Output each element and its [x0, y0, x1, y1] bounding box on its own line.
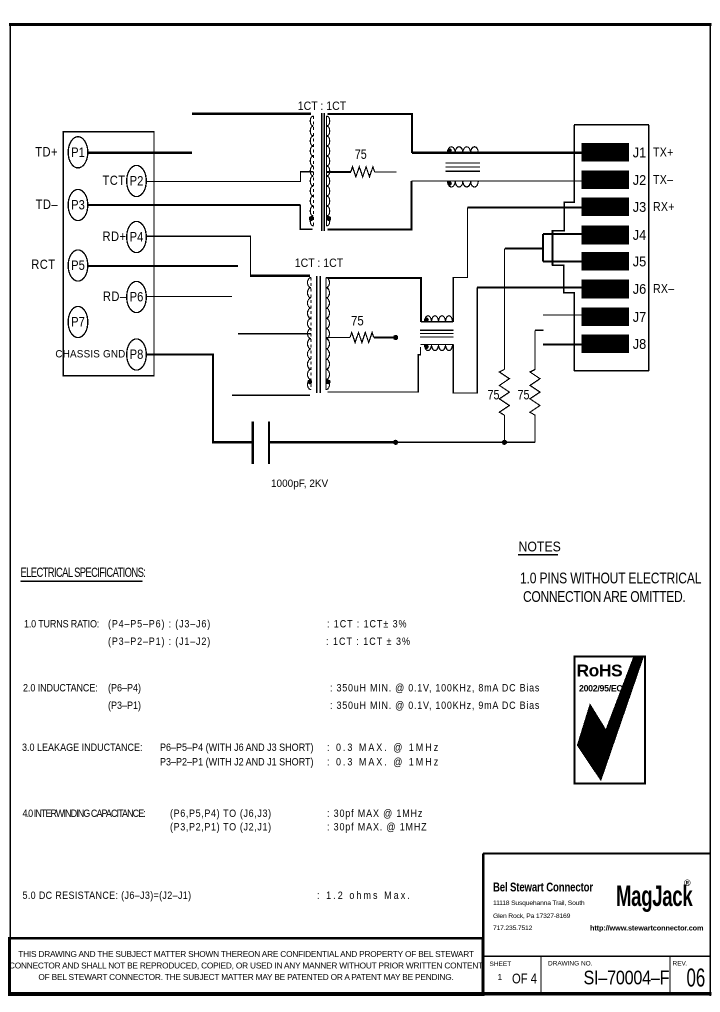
svg-text:J1: J1	[633, 143, 647, 160]
svg-text:1000pF, 2KV: 1000pF, 2KV	[271, 477, 329, 490]
T1 core	[321, 113, 323, 231]
svg-text:J8: J8	[633, 335, 647, 352]
choke L1 top winding with J1 wire	[412, 147, 582, 153]
spec 1.0 turns ratio	[24, 619, 411, 649]
svg-text:J4: J4	[633, 226, 647, 243]
wire J6	[477, 287, 582, 289]
choke L1 core	[446, 163, 480, 171]
svg-text:TX–: TX–	[653, 173, 673, 187]
T2 primary phase dot	[307, 380, 312, 385]
svg-text:: 30pf MAX. @ 1MHZ: : 30pf MAX. @ 1MHZ	[327, 822, 428, 834]
T2 core	[316, 276, 318, 393]
svg-text:RX–: RX–	[653, 282, 675, 296]
wire J4	[543, 233, 582, 235]
pin P4	[127, 221, 147, 252]
resistor R4 75 ohm	[517, 330, 543, 442]
svg-text:http://www.stewartconnector.co: http://www.stewartconnector.com	[590, 923, 704, 932]
svg-text:®: ®	[684, 878, 691, 888]
drawing no cell	[548, 961, 669, 989]
svg-text:REV.: REV.	[673, 961, 688, 968]
svg-text:SHEET: SHEET	[490, 961, 512, 968]
svg-text:3.0 LEAKAGE INDUCTANCE:: 3.0 LEAKAGE INDUCTANCE:	[22, 742, 142, 754]
resistor R3 75 ohm	[487, 370, 509, 443]
T2 primary winding	[310, 278, 312, 391]
svg-text:: 1CT : 1CT± 3%: : 1CT : 1CT± 3%	[327, 619, 407, 631]
choke L1 bottom winding with J2 wire	[412, 181, 582, 187]
svg-text:CONNECTOR AND SHALL NOT BE REP: CONNECTOR AND SHALL NOT BE REPRODUCED, C…	[9, 961, 483, 971]
svg-text:Bel Stewart Connector: Bel Stewart Connector	[493, 881, 594, 895]
svg-text:(P3–P1): (P3–P1)	[108, 700, 141, 712]
wire T1 primary top	[192, 113, 311, 115]
choke L2 top winding	[421, 316, 453, 322]
svg-text:J7: J7	[633, 308, 647, 325]
svg-text:06: 06	[687, 963, 706, 993]
svg-text:RD–: RD–	[103, 289, 127, 304]
wire J7 stub	[543, 314, 582, 316]
rev cell	[673, 961, 706, 993]
wire J4-J5 tie	[505, 230, 552, 266]
wire T1 secondary bottom to choke L1	[328, 181, 412, 229]
wire choke L2 top to J3	[453, 208, 467, 322]
wire T1 secondary top to choke L1	[328, 114, 413, 153]
pad J2	[582, 170, 647, 189]
svg-text:75: 75	[355, 147, 367, 162]
svg-text:(P4–P5–P6) : (J3–J6): (P4–P5–P6) : (J3–J6)	[108, 619, 211, 631]
svg-text:1.0 PINS WITHOUT ELECTRICAL: 1.0 PINS WITHOUT ELECTRICAL	[520, 569, 702, 587]
wire T2 primary center tap	[238, 333, 311, 335]
T1 primary phase dot	[309, 216, 314, 221]
wire J3	[468, 206, 582, 208]
wire P3 to T1 primary bottom	[88, 204, 300, 206]
svg-text:NOTES: NOTES	[519, 538, 561, 554]
svg-text:MagJack: MagJack	[616, 880, 693, 914]
pin P7	[68, 306, 88, 337]
svg-text:P6: P6	[130, 289, 144, 304]
title block	[483, 854, 710, 996]
svg-text:75: 75	[487, 387, 499, 402]
svg-text:1CT : 1CT: 1CT : 1CT	[295, 257, 344, 270]
svg-text:2002/95/EC: 2002/95/EC	[579, 684, 623, 694]
svg-text:TCT: TCT	[102, 173, 125, 188]
svg-text:: 1.2 ohms Max.: : 1.2 ohms Max.	[317, 890, 412, 902]
choke L2 core	[420, 330, 454, 337]
spec 5.0 dc resistance	[23, 890, 412, 902]
wire P5 stub	[88, 265, 238, 267]
wire J8 stub	[543, 343, 582, 345]
svg-text:P3: P3	[71, 197, 85, 212]
wire T2 primary bottom	[232, 394, 310, 396]
svg-text:1: 1	[498, 972, 503, 982]
spec 2.0 inductance	[23, 683, 540, 713]
junction dot	[393, 440, 398, 445]
svg-text:: 0.3 MAX. @ 1MHz: : 0.3 MAX. @ 1MHz	[327, 757, 440, 769]
svg-text:TD–: TD–	[36, 197, 58, 212]
svg-text:: 30pf MAX @ 1MHz: : 30pf MAX @ 1MHz	[327, 808, 423, 820]
svg-text:(P6,P5,P4) TO (J6,J3): (P6,P5,P4) TO (J6,J3)	[170, 808, 272, 820]
svg-text:J2: J2	[633, 171, 647, 188]
wire C1 to ground junctions	[269, 441, 396, 443]
pad J6	[582, 280, 647, 299]
svg-text:P7: P7	[71, 314, 85, 329]
svg-text:J3: J3	[633, 198, 647, 215]
wire T2 secondary bottom to choke L2	[328, 347, 421, 392]
svg-text:THIS DRAWING AND THE SUBJECT M: THIS DRAWING AND THE SUBJECT MATTER SHOW…	[18, 949, 474, 959]
connector J-block	[553, 125, 649, 371]
pin P8	[127, 339, 147, 370]
T2 secondary phase dot	[326, 380, 331, 385]
resistor R2 75 ohm	[350, 314, 398, 343]
wire P4 to T2 primary top	[146, 236, 250, 275]
T1 secondary phase dot	[326, 216, 331, 221]
sheet cell	[490, 961, 537, 987]
company name Bel Stewart Connector	[493, 881, 594, 932]
choke L2 bottom winding	[421, 345, 454, 351]
disclaimer box	[9, 938, 483, 995]
svg-text:OF 4: OF 4	[512, 970, 537, 987]
svg-text:P4: P4	[130, 229, 144, 244]
svg-text:75: 75	[351, 314, 364, 329]
svg-text:11118 Susquehanna Trail, South: 11118 Susquehanna Trail, South	[493, 900, 585, 907]
pin P1	[68, 137, 88, 168]
transformer T1	[298, 100, 347, 231]
RoHS logo	[575, 657, 646, 784]
pad J5	[582, 252, 647, 271]
T1 secondary winding	[325, 116, 327, 226]
connector P-block	[63, 132, 154, 376]
wire T2 center tap to R2	[327, 337, 351, 339]
wire choke L2 bottom to J6	[453, 288, 477, 393]
T1 primary winding	[313, 116, 315, 226]
svg-text:1CT : 1CT: 1CT : 1CT	[298, 100, 347, 113]
pad J3	[582, 198, 647, 217]
junction dot	[502, 440, 507, 445]
wire J5	[543, 261, 582, 263]
wire T2 secondary top to choke L2	[328, 278, 421, 322]
pad J7	[582, 307, 647, 326]
pin P5	[68, 250, 88, 281]
pin P3	[68, 189, 88, 220]
wire T1 center tap to R1	[327, 171, 351, 173]
svg-text:P6–P5–P4 (WITH J6 AND J3 SHORT: P6–P5–P4 (WITH J6 AND J3 SHORT)	[160, 742, 314, 754]
svg-text:P5: P5	[71, 258, 85, 273]
svg-text:CONNECTION ARE OMITTED.: CONNECTION ARE OMITTED.	[523, 588, 685, 606]
svg-text:J6: J6	[633, 280, 647, 297]
pin P6	[127, 281, 147, 312]
svg-text:CHASSIS GND: CHASSIS GND	[55, 349, 125, 361]
svg-text:RD+: RD+	[103, 229, 127, 244]
svg-text:5.0 DC RESISTANCE: (J6–J3)=(J2: 5.0 DC RESISTANCE: (J6–J3)=(J2–J1)	[23, 890, 192, 902]
svg-text:P8: P8	[130, 347, 144, 362]
svg-text:P1: P1	[71, 145, 85, 160]
svg-text:RX+: RX+	[653, 200, 675, 214]
wire tie down to R3	[503, 249, 505, 370]
wire P2 to center tap	[146, 172, 313, 182]
svg-text:: 1CT : 1CT ± 3%: : 1CT : 1CT ± 3%	[326, 636, 411, 648]
svg-text:RCT: RCT	[31, 257, 55, 272]
svg-text:: 350uH MIN. @ 0.1V, 100KHz, 9: : 350uH MIN. @ 0.1V, 100KHz, 9mA DC Bias	[330, 700, 540, 712]
svg-text:P3–P2–P1 (WITH J2 AND J1 SHORT: P3–P2–P1 (WITH J2 AND J1 SHORT)	[160, 757, 314, 769]
pad J1	[582, 143, 647, 162]
svg-text:2.0 INDUCTANCE:: 2.0 INDUCTANCE:	[23, 683, 98, 695]
svg-text:(P6–P4): (P6–P4)	[108, 683, 141, 695]
svg-text:OF BEL STEWART CONNECTOR. THE: OF BEL STEWART CONNECTOR. THE SUBJECT MA…	[38, 972, 453, 982]
svg-text:Glen Rock, Pa 17327-8169: Glen Rock, Pa 17327-8169	[493, 913, 571, 920]
spec 4.0 interwinding capacitance	[23, 808, 428, 834]
spec 3.0 leakage inductance	[22, 742, 440, 769]
section NOTES	[518, 538, 702, 605]
svg-text:(P3–P2–P1) : (J1–J2): (P3–P2–P1) : (J1–J2)	[108, 636, 211, 648]
wire T2 primary top	[250, 274, 310, 276]
svg-text:: 0.3 MAX. @ 1MHz: : 0.3 MAX. @ 1MHz	[327, 742, 440, 754]
MagJack logo	[616, 878, 693, 913]
T2 secondary winding	[325, 278, 327, 391]
svg-text:P2: P2	[130, 173, 144, 188]
svg-text:RoHS: RoHS	[577, 661, 623, 681]
wire P1 stub	[88, 152, 192, 154]
svg-text:4.0 INTERWINDING CAPACITANCE:: 4.0 INTERWINDING CAPACITANCE:	[23, 808, 146, 820]
svg-text:SI–70004–F: SI–70004–F	[584, 967, 670, 989]
section ELECTRICAL SPECIFICATIONS	[21, 565, 146, 581]
resistor R1 75 ohm	[351, 147, 397, 177]
svg-text:717.235.7512: 717.235.7512	[493, 925, 533, 932]
pad J8	[582, 334, 647, 353]
svg-text:ELECTRICAL SPECIFICATIONS:: ELECTRICAL SPECIFICATIONS:	[21, 565, 146, 580]
wire P8 chassis to capacitor	[146, 355, 252, 443]
transformer T2	[295, 257, 344, 393]
wire P6 stub	[146, 296, 232, 298]
svg-text:TX+: TX+	[653, 146, 674, 160]
svg-text:1.0 TURNS RATIO:: 1.0 TURNS RATIO:	[24, 619, 99, 631]
svg-text:J5: J5	[633, 253, 647, 270]
capacitor C1 1000pF	[253, 422, 329, 491]
svg-text:TD+: TD+	[35, 144, 58, 159]
svg-text:75: 75	[517, 387, 529, 402]
svg-text:(P3,P2,P1) TO (J2,J1): (P3,P2,P1) TO (J2,J1)	[170, 822, 272, 834]
pin P2	[127, 165, 147, 196]
svg-text:: 350uH MIN. @ 0.1V, 100KHz, 8: : 350uH MIN. @ 0.1V, 100KHz, 8mA DC Bias	[330, 683, 540, 695]
pad J4	[582, 226, 647, 245]
